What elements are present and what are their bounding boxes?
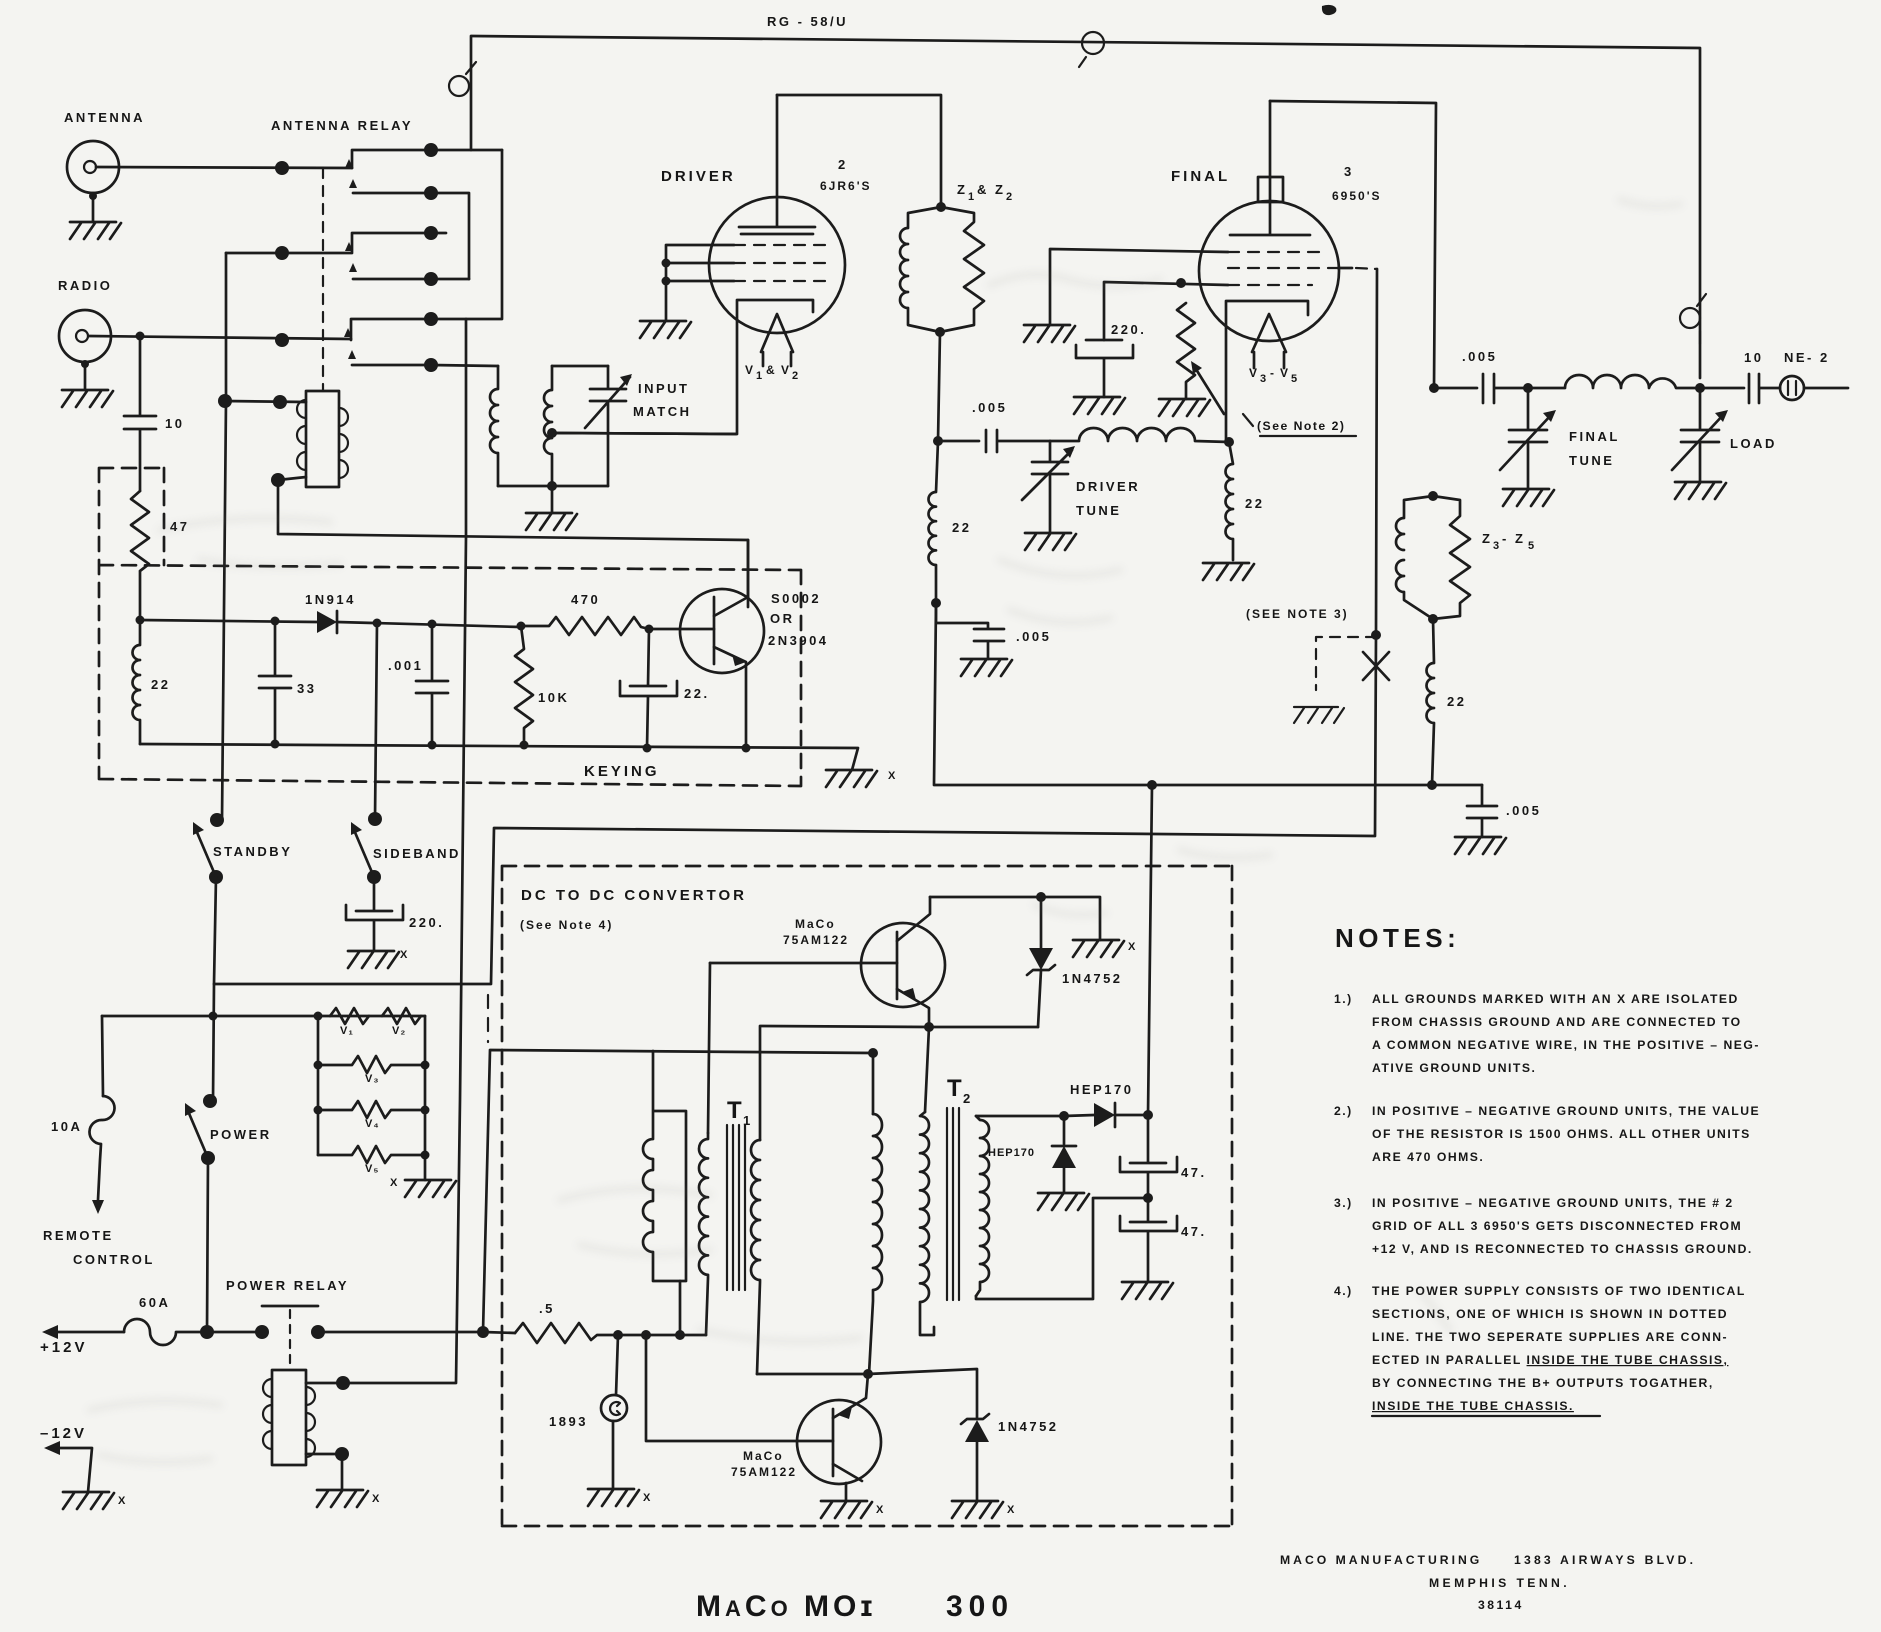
svg-text:DC TO DC CONVERTOR: DC TO DC CONVERTOR bbox=[521, 887, 747, 904]
svg-text:X: X bbox=[643, 1492, 651, 1504]
node rectifier junction bbox=[1059, 1111, 1069, 1121]
suppressor Z3-Z5 bbox=[1396, 491, 1470, 619]
capacitor .005 B+ bypass bbox=[1467, 785, 1497, 837]
svg-text:220.: 220. bbox=[409, 915, 444, 930]
resistor 470 bbox=[521, 617, 649, 635]
svg-text:1383 AIRWAYS BLVD.: 1383 AIRWAYS BLVD. bbox=[1514, 1553, 1696, 1567]
dashed box KEYING bbox=[99, 468, 801, 786]
svg-text:POWER: POWER bbox=[210, 1127, 272, 1142]
svg-text:MaCo: MaCo bbox=[795, 917, 836, 931]
diode 1N914 bbox=[317, 611, 520, 633]
wire rail contact to junction bbox=[318, 1331, 483, 1334]
zener diode 1N4752 lower bbox=[961, 1414, 989, 1501]
node relay throw 2B bbox=[424, 272, 438, 286]
connector coax tap left bbox=[449, 62, 476, 96]
variable capacitor FINAL TUNE bbox=[1500, 388, 1556, 488]
node see note 3 bbox=[1371, 630, 1381, 640]
node relay throw 2A bbox=[424, 226, 438, 240]
scan speck top middle bbox=[1322, 5, 1337, 15]
wire coil bottom to ground bbox=[306, 1454, 342, 1490]
capacitor .001 bbox=[416, 624, 448, 745]
svg-text:FROM CHASSIS GROUND AND ARE CO: FROM CHASSIS GROUND AND ARE CONNECTED TO bbox=[1372, 1015, 1742, 1029]
node driver plate tank bbox=[933, 436, 943, 446]
ground final tune bbox=[1503, 489, 1554, 506]
wire final grid2 keyed line bbox=[213, 268, 1377, 1101]
svg-text:RADIO: RADIO bbox=[58, 278, 112, 293]
label MACO MANUFACTURING address bbox=[1280, 1553, 1696, 1612]
svg-text:3.): 3.) bbox=[1334, 1196, 1353, 1210]
tube V3-V5 final 6950 bbox=[1199, 101, 1339, 442]
svg-text:1.): 1.) bbox=[1334, 992, 1353, 1006]
wire relay bus down to power relay coil bbox=[343, 319, 466, 1383]
svg-text:MEMPHIS TENN.: MEMPHIS TENN. bbox=[1429, 1576, 1570, 1590]
connector radio jack bbox=[59, 310, 111, 390]
relay contact power relay bbox=[255, 1306, 325, 1370]
ground input match bbox=[526, 513, 577, 530]
node B+ cap junction bbox=[1143, 1110, 1153, 1120]
resistor grid bleeder variable bbox=[1177, 303, 1224, 414]
X mark isolated joint bbox=[1363, 652, 1389, 680]
wire B+ riser into DC-DC bbox=[1148, 785, 1152, 1115]
svg-text:ALL GROUNDS MARKED WITH AN X A: ALL GROUNDS MARKED WITH AN X ARE ISOLATE… bbox=[1372, 992, 1739, 1006]
node grid3 resistor tap bbox=[1176, 278, 1186, 288]
svg-text:75AM122: 75AM122 bbox=[731, 1465, 797, 1479]
node load tap bbox=[1695, 383, 1705, 393]
svg-text:1: 1 bbox=[968, 191, 975, 203]
inductor 22 driver grid choke bbox=[929, 441, 939, 603]
svg-text:X: X bbox=[118, 1495, 126, 1507]
wire driver plate to Z1Z2 bbox=[777, 95, 941, 207]
svg-text:MaCo: MaCo bbox=[743, 1449, 784, 1463]
svg-text:LINE. THE TWO SEPERATE SUPPLIE: LINE. THE TWO SEPERATE SUPPLIES ARE CONN… bbox=[1372, 1330, 1728, 1344]
svg-text:SECTIONS, ONE OF WHICH IS SHOW: SECTIONS, ONE OF WHICH IS SHOWN IN DOTTE… bbox=[1372, 1307, 1728, 1321]
svg-text:A COMMON NEGATIVE WIRE, IN THE: A COMMON NEGATIVE WIRE, IN THE POSITIVE … bbox=[1372, 1038, 1760, 1052]
svg-text:1: 1 bbox=[756, 370, 763, 382]
svg-text:3: 3 bbox=[1260, 373, 1267, 385]
svg-text:10: 10 bbox=[1744, 350, 1763, 365]
node rail left bbox=[136, 616, 145, 625]
inductor 22 final grid choke bbox=[1226, 442, 1233, 560]
svg-text:.005: .005 bbox=[972, 400, 1007, 415]
ground load bbox=[1675, 482, 1726, 499]
node driver link to final cathode bbox=[1224, 437, 1234, 447]
diode HEP170 series bbox=[1064, 1103, 1148, 1127]
lamp 1893 pilot bbox=[601, 1335, 627, 1489]
wire pole2 riser down to standby bbox=[222, 253, 226, 820]
capacitor 10 radio coupling bbox=[124, 336, 156, 491]
wire -12V stub bbox=[44, 1441, 92, 1492]
svg-text:22: 22 bbox=[1245, 496, 1264, 511]
wire T1 secondary to Q3 collector node bbox=[757, 1373, 868, 1376]
relay contact set 1 bbox=[275, 150, 431, 193]
node choke bottom bbox=[931, 598, 941, 608]
wire rail continues to .5 resistor bbox=[483, 1332, 515, 1333]
node relay throw 3B bbox=[424, 358, 438, 372]
svg-text:(See Note 4): (See Note 4) bbox=[520, 918, 613, 932]
ground 220 cap bbox=[1074, 397, 1125, 414]
node Z3Z5 bottom bbox=[1428, 614, 1438, 624]
wire to ground bbox=[551, 486, 554, 513]
svg-text:&: & bbox=[766, 363, 777, 377]
svg-text:1N4752: 1N4752 bbox=[1062, 971, 1123, 986]
inductor driver link coil bbox=[1050, 428, 1229, 442]
wire resistor to T1 bbox=[618, 1334, 706, 1337]
ground keying isolated X bbox=[826, 770, 896, 787]
svg-text:.005: .005 bbox=[1016, 629, 1051, 644]
wire keying bottom rail bbox=[140, 744, 858, 770]
node input match tap bbox=[547, 428, 557, 438]
wire tank bottom rail bbox=[934, 603, 1482, 785]
svg-text:3: 3 bbox=[1493, 540, 1500, 552]
capacitor 47. lower bbox=[1120, 1198, 1177, 1282]
relay actuator dashed link bbox=[322, 168, 324, 391]
svg-text:OF THE RESISTOR IS 1500 OHMS.: OF THE RESISTOR IS 1500 OHMS. ALL OTHER … bbox=[1372, 1127, 1751, 1141]
svg-text:10A: 10A bbox=[51, 1119, 82, 1134]
svg-text:(SEE NOTE 3): (SEE NOTE 3) bbox=[1246, 607, 1349, 621]
relay coil antenna relay bbox=[297, 391, 348, 487]
svg-text:LOAD: LOAD bbox=[1730, 436, 1777, 451]
svg-text:IN POSITIVE – NEGATIVE GROUND: IN POSITIVE – NEGATIVE GROUND UNITS, THE… bbox=[1372, 1104, 1760, 1118]
svg-text:1893: 1893 bbox=[549, 1414, 588, 1429]
svg-text:& Z: & Z bbox=[977, 182, 1005, 197]
svg-text:2: 2 bbox=[838, 157, 848, 172]
lamp NE-2 neon bbox=[1780, 376, 1848, 400]
svg-text:.5: .5 bbox=[539, 1301, 555, 1316]
wire radio line to relay pole 3 bbox=[89, 336, 351, 339]
svg-text:OR: OR bbox=[770, 611, 795, 626]
switch STANDBY bbox=[193, 813, 224, 884]
node relay throw 1A bbox=[424, 143, 438, 157]
resistor network V1-V5 bbox=[314, 1008, 430, 1180]
tube V1 V2 driver 6JR6 bbox=[556, 95, 845, 434]
svg-text:HEP170: HEP170 bbox=[988, 1147, 1035, 1159]
node zener1 tap bbox=[1036, 892, 1046, 902]
dashed box DC-DC convertor bbox=[502, 866, 1232, 1526]
diode HEP170 shunt bbox=[1052, 1116, 1076, 1193]
node input match ground tap bbox=[547, 481, 557, 491]
node base junction bbox=[645, 625, 654, 634]
connector coax tap top middle bbox=[1079, 32, 1104, 67]
svg-text:X: X bbox=[876, 1504, 884, 1516]
node Z1Z2 top bbox=[936, 202, 946, 212]
wire throw1A to coax drop bbox=[431, 149, 502, 152]
note 3 bbox=[1334, 1196, 1753, 1256]
wire W5 drop bbox=[925, 1027, 929, 1112]
transformer T1 secondary winding bbox=[751, 1140, 760, 1374]
inductor tank coil bbox=[1528, 375, 1700, 388]
node relay coil feed junction bbox=[218, 394, 232, 408]
wire Z1Z2 to driver tune node bbox=[938, 332, 940, 441]
node lamp tap bbox=[613, 1330, 623, 1340]
svg-text:POWER RELAY: POWER RELAY bbox=[226, 1278, 349, 1293]
svg-text:2N3904: 2N3904 bbox=[768, 633, 829, 648]
node feedback winding tap bbox=[675, 1330, 685, 1340]
node Q2 emitter junction bbox=[924, 1022, 934, 1032]
inductor 22 plate choke bbox=[1427, 619, 1434, 785]
node relay coil top lead bbox=[336, 1376, 350, 1390]
svg-text:NOTES:: NOTES: bbox=[1335, 923, 1460, 953]
svg-text:CONTROL: CONTROL bbox=[73, 1252, 155, 1267]
svg-text:75AM122: 75AM122 bbox=[783, 933, 849, 947]
svg-text:X: X bbox=[400, 949, 408, 961]
node sideband tap bbox=[373, 619, 382, 628]
transformer T2 primary winding bbox=[869, 1114, 882, 1374]
capacitor .005 plate blocking bbox=[1434, 374, 1528, 403]
relay coil power relay bbox=[263, 1370, 315, 1465]
ground under radio jack bbox=[62, 390, 113, 407]
wire final grid1 to ground bbox=[1050, 249, 1228, 325]
svg-text:(See Note 2): (See Note 2) bbox=[1257, 419, 1345, 433]
node choke to B+ rail bbox=[1427, 780, 1437, 790]
capacitor 47. upper bbox=[1120, 1115, 1177, 1198]
svg-text:INSIDE THE TUBE CHASSIS.: INSIDE THE TUBE CHASSIS. bbox=[1372, 1399, 1574, 1413]
svg-text:-: - bbox=[1270, 366, 1276, 380]
ground shunt diode bbox=[1038, 1193, 1089, 1210]
transformer T1 feedback winding bbox=[643, 1051, 686, 1335]
svg-text:TUNE: TUNE bbox=[1569, 453, 1614, 468]
wire throw1B bus bbox=[431, 193, 469, 279]
svg-text:V: V bbox=[1249, 366, 1259, 380]
switch SIDEBAND bbox=[351, 812, 382, 884]
node power switch tap bbox=[209, 1012, 218, 1021]
svg-text:5: 5 bbox=[1528, 540, 1535, 552]
svg-text:300: 300 bbox=[946, 1590, 1014, 1623]
wire Q2 base drop to T1 bbox=[708, 963, 710, 1133]
wire standby down to power bus bbox=[214, 877, 216, 984]
svg-text:KEYING: KEYING bbox=[584, 763, 660, 780]
label title MaCo MODEL 300 bbox=[696, 1590, 1014, 1623]
svg-text:–12V: –12V bbox=[40, 1425, 87, 1442]
svg-text:X: X bbox=[1007, 1504, 1015, 1516]
wire Q3 base riser bbox=[646, 1335, 833, 1441]
capacitor 220 final bypass bbox=[1076, 340, 1133, 397]
svg-text:ANTENNA RELAY: ANTENNA RELAY bbox=[271, 118, 413, 133]
wire sideband drop bbox=[375, 623, 377, 819]
svg-text:2: 2 bbox=[792, 370, 799, 382]
dashed stub to isolated ground bbox=[1316, 637, 1376, 690]
svg-text:5: 5 bbox=[1291, 373, 1298, 385]
svg-text:V: V bbox=[1280, 366, 1290, 380]
svg-text:SIDEBAND: SIDEBAND bbox=[373, 846, 461, 861]
svg-text:HEP170: HEP170 bbox=[1070, 1082, 1133, 1097]
svg-text:.005: .005 bbox=[1462, 349, 1497, 364]
capacitor 220. sideband electrolytic bbox=[346, 877, 403, 951]
node DC-DC feed junction bbox=[477, 1326, 489, 1338]
ground under antenna jack bbox=[70, 222, 121, 239]
ground Q3 emitter isolated X bbox=[821, 1501, 884, 1518]
zener diode 1N4752 upper bbox=[1027, 897, 1055, 1027]
ground -12V isolated X bbox=[63, 1492, 126, 1509]
svg-text:3: 3 bbox=[1344, 164, 1354, 179]
ground final grid1 bbox=[1024, 325, 1075, 342]
wire relay coil bottom to keying transistor collector bbox=[278, 477, 748, 607]
svg-text:220.: 220. bbox=[1111, 322, 1146, 337]
connector coax output right bbox=[1680, 294, 1706, 344]
ground dashed isolated bbox=[1294, 707, 1344, 723]
capacitor 22. electrolytic bbox=[620, 629, 677, 748]
svg-text:V: V bbox=[781, 363, 791, 377]
svg-text:.001: .001 bbox=[388, 658, 423, 673]
scan ghost group (bleed-through, decorative) bbox=[90, 200, 1680, 1462]
svg-text:10: 10 bbox=[165, 416, 184, 431]
dashed stub second supply bbox=[487, 995, 489, 1042]
svg-text:TUNE: TUNE bbox=[1076, 503, 1121, 518]
svg-text:ATIVE GROUND UNITS.: ATIVE GROUND UNITS. bbox=[1372, 1061, 1536, 1075]
switch POWER bbox=[185, 1094, 217, 1165]
node radio tap bbox=[136, 332, 145, 341]
wire throw2B bus joins throw1B bbox=[431, 278, 469, 281]
svg-text:+12V: +12V bbox=[40, 1339, 87, 1356]
node 10K top bbox=[517, 622, 526, 631]
svg-text:22: 22 bbox=[952, 520, 971, 535]
svg-text:33: 33 bbox=[297, 681, 316, 696]
node relay coil bottom lead bbox=[335, 1447, 349, 1461]
ground sideband isolated X bbox=[348, 949, 408, 968]
ground power relay isolated X bbox=[317, 1490, 380, 1507]
wire input match top link bbox=[552, 365, 608, 368]
svg-text:V: V bbox=[745, 363, 755, 377]
svg-text:47.: 47. bbox=[1181, 1224, 1207, 1239]
svg-text:1N4752: 1N4752 bbox=[998, 1419, 1059, 1434]
svg-text:V₂: V₂ bbox=[392, 1025, 406, 1037]
svg-text:REMOTE: REMOTE bbox=[43, 1228, 114, 1243]
ground output filter bbox=[1122, 1282, 1173, 1299]
transformer T2 tickler winding bbox=[920, 1112, 934, 1335]
ground B+ bypass bbox=[1455, 837, 1506, 854]
svg-text:ECTED IN PARALLEL INSIDE THE T: ECTED IN PARALLEL INSIDE THE TUBE CHASSI… bbox=[1372, 1353, 1728, 1367]
svg-text:MACO MANUFACTURING: MACO MANUFACTURING bbox=[1280, 1553, 1482, 1567]
node plate tank junction bbox=[1429, 383, 1439, 393]
fuse 60A bbox=[124, 1319, 207, 1345]
svg-text:60A: 60A bbox=[139, 1295, 170, 1310]
wire tap to driver cathode bbox=[552, 433, 736, 434]
svg-text:ANTENNA: ANTENNA bbox=[64, 110, 145, 125]
svg-text:V₅: V₅ bbox=[365, 1163, 379, 1175]
transformer T1 primary winding bbox=[699, 1133, 708, 1335]
svg-text:38114: 38114 bbox=[1478, 1598, 1524, 1612]
svg-text:V₄: V₄ bbox=[365, 1118, 380, 1130]
variable capacitor LOAD bbox=[1672, 388, 1728, 481]
svg-text:22: 22 bbox=[1447, 694, 1466, 709]
fuse 10A bbox=[89, 1096, 114, 1214]
wire throw3B to input match primary bbox=[431, 365, 498, 366]
ground driver grids bbox=[640, 321, 691, 338]
node T2 primary feed bbox=[868, 1048, 878, 1058]
wire Q2 emitter line bbox=[760, 1026, 1038, 1140]
wire Q2 collector to X ground bbox=[930, 897, 1100, 940]
transformer T2 secondary winding bbox=[976, 1116, 989, 1296]
svg-text:X: X bbox=[372, 1493, 380, 1505]
ground lamp isolated X bbox=[588, 1489, 651, 1506]
wire keying top rail bbox=[140, 620, 317, 622]
svg-text:DRIVER: DRIVER bbox=[661, 168, 736, 185]
node relay coil top terminal bbox=[273, 395, 287, 409]
wire power switch down to 12V rail bbox=[207, 1158, 208, 1332]
connector antenna jack bbox=[67, 141, 119, 222]
node .001 top bbox=[428, 620, 437, 629]
svg-text:NE- 2: NE- 2 bbox=[1784, 350, 1830, 365]
note 4 bbox=[1334, 1284, 1746, 1416]
ground final grid choke bbox=[1203, 563, 1254, 580]
svg-text:47.: 47. bbox=[1181, 1165, 1207, 1180]
ground driver tune bbox=[1025, 533, 1076, 550]
node relay throw 1B bbox=[424, 186, 438, 200]
wire T2 secondary bottom to cap midpoint bbox=[976, 1198, 1148, 1299]
svg-text:S0002: S0002 bbox=[771, 591, 821, 606]
variable capacitor INPUT MATCH bbox=[585, 366, 632, 486]
svg-text:X: X bbox=[888, 770, 896, 782]
node relay throw 3A bbox=[424, 312, 438, 326]
svg-text:22: 22 bbox=[151, 677, 170, 692]
svg-text:Z: Z bbox=[957, 182, 967, 197]
node Q3 base tap bbox=[641, 1330, 651, 1340]
svg-text:6950'S: 6950'S bbox=[1332, 189, 1382, 203]
svg-text:V₁: V₁ bbox=[340, 1025, 354, 1037]
transistor Q2 75AM122 upper bbox=[710, 897, 945, 1027]
svg-text:ARE 470 OHMS.: ARE 470 OHMS. bbox=[1372, 1150, 1484, 1164]
relay contact set 3 bbox=[275, 319, 431, 365]
wire driver grids to ground bbox=[662, 245, 735, 320]
ground grid bleeder bbox=[1159, 399, 1210, 416]
svg-text:2: 2 bbox=[963, 1091, 973, 1106]
inductor input match secondary bbox=[544, 366, 552, 486]
wire final grid3 row bbox=[1104, 282, 1228, 340]
svg-text:10K: 10K bbox=[538, 690, 569, 705]
parasitic suppressor Z1 and Z2 (coil + resistor) bbox=[900, 207, 984, 332]
svg-text:FINAL: FINAL bbox=[1171, 168, 1230, 185]
svg-text:2: 2 bbox=[1006, 191, 1013, 203]
wire bus corner to fuse bbox=[102, 1016, 103, 1096]
inductor input match primary bbox=[490, 366, 498, 486]
ground zener2 isolated X bbox=[952, 1501, 1015, 1518]
wire T2 secondary top to rectifier bbox=[976, 1115, 1064, 1118]
svg-text:MATCH: MATCH bbox=[633, 404, 691, 419]
svg-text:2.): 2.) bbox=[1334, 1104, 1353, 1118]
node final tune tap bbox=[1523, 383, 1533, 393]
capacitor 33 bbox=[259, 621, 291, 744]
wire throw3A bus to throw1A bbox=[431, 150, 502, 319]
svg-text:BY CONNECTING THE B+ OUTPUTS T: BY CONNECTING THE B+ OUTPUTS TOGATHER, bbox=[1372, 1376, 1714, 1390]
capacitor 10 neon bbox=[1700, 374, 1780, 403]
svg-text:T: T bbox=[947, 1075, 962, 1102]
svg-text:Z: Z bbox=[1482, 531, 1492, 546]
wire power feed bus bbox=[102, 1015, 425, 1018]
svg-text:STANDBY: STANDBY bbox=[213, 844, 292, 859]
svg-text:GRID OF ALL 3 6950'S GETS DISC: GRID OF ALL 3 6950'S GETS DISCONNECTED F… bbox=[1372, 1219, 1742, 1233]
note 1 bbox=[1334, 992, 1760, 1075]
node power switch rail joint bbox=[200, 1325, 214, 1339]
ground driver bypass bbox=[961, 659, 1012, 676]
resistor 10K bbox=[515, 626, 533, 745]
node relay coil bottom terminal bbox=[271, 473, 285, 487]
svg-text:X: X bbox=[1128, 941, 1136, 953]
node bottom rail joints bbox=[271, 740, 751, 753]
svg-text:6JR6'S: 6JR6'S bbox=[820, 179, 872, 193]
svg-text:- Z: - Z bbox=[1502, 531, 1525, 546]
wire coil top lead bbox=[306, 1382, 343, 1385]
wire node to zener2 bbox=[868, 1369, 977, 1418]
svg-text:X: X bbox=[390, 1177, 398, 1189]
svg-text:FINAL: FINAL bbox=[1569, 429, 1620, 444]
svg-text:T: T bbox=[727, 1097, 742, 1124]
node B+ riser tap bbox=[1147, 780, 1157, 790]
wire junction to relay coil bbox=[225, 401, 306, 402]
wire junction up to converter line bbox=[483, 1050, 873, 1332]
wire final plate to Z3Z5 drop bbox=[1270, 101, 1436, 388]
svg-text:4.): 4.) bbox=[1334, 1284, 1353, 1298]
svg-text:+12 V, AND IS RECONNECTED TO C: +12 V, AND IS RECONNECTED TO CHASSIS GRO… bbox=[1372, 1242, 1753, 1256]
label (See Note 2) with underline bbox=[1243, 414, 1356, 436]
